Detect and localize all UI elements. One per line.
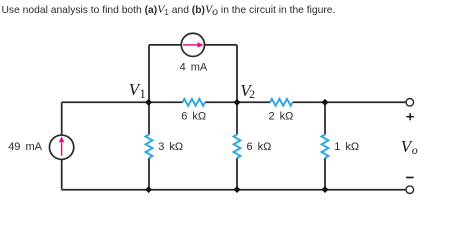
svg-text:1 kΩ: 1 kΩ (334, 141, 359, 153)
wire: left vertical branch (top half, above 49mA source) (61, 102, 63, 135)
svg-text:6 kΩ: 6 kΩ (181, 111, 206, 123)
minus sign (406, 177, 414, 179)
wire: top rail segment between 6k and 2k resistors (205, 101, 270, 103)
open terminal (bottom right) (406, 186, 414, 194)
svg-text:4 mA: 4 mA (180, 62, 208, 74)
resistor 6k horizontal (between V1 and V2) (183, 99, 206, 106)
resistor 1k vertical (right branch) (322, 135, 329, 158)
problem statement text (2, 2, 336, 17)
svg-text:3 kΩ: 3 kΩ (158, 141, 183, 153)
svg-text:49 mA: 49 mA (8, 141, 42, 153)
current source I2 49 mA (circle) (49, 135, 73, 159)
resistor 3k vertical (below V1) (146, 135, 153, 158)
svg-text:6 kΩ: 6 kΩ (247, 141, 272, 153)
svg-text:V2: V2 (240, 81, 255, 101)
svg-text:V1: V1 (129, 80, 146, 101)
open terminal (top right) (406, 99, 414, 107)
svg-text:Vo: Vo (401, 137, 418, 157)
resistor 6k vertical (below V2) (234, 135, 241, 158)
plus sign (406, 113, 414, 120)
wire: top branch right vertical (down to V2) (236, 45, 238, 102)
current source I1 arrow (183, 42, 203, 47)
wire: right branch below 1k resistor (324, 158, 326, 190)
wire: bottom rail (62, 189, 406, 191)
wire: V1 branch below 3k resistor (148, 158, 150, 190)
wire: top rail segment from 2k resistor to open terminal (293, 101, 406, 103)
wire: top branch horizontal left of 4mA source (149, 44, 181, 46)
junction dot bottom of V1 branch (146, 187, 152, 193)
wire: V2 branch below 6k resistor (236, 158, 238, 190)
junction dot top of 1k branch (322, 99, 328, 105)
node V1 junction dot (top) (146, 99, 152, 105)
wire: right branch above 1k resistor (324, 102, 326, 134)
junction dot bottom of 1k branch (322, 187, 328, 193)
wire: top branch horizontal right of 4mA source (205, 44, 237, 46)
wire: top branch left vertical (V1 up) (148, 45, 150, 102)
wire: left vertical branch (bottom half, below 49mA source) (61, 159, 63, 189)
node V2 junction dot (top) (234, 99, 240, 105)
resistor 2k horizontal (right of V2) (270, 99, 293, 106)
junction dot bottom of V2 branch (234, 187, 240, 193)
current source I1 4 mA (circle) (181, 33, 204, 56)
current source I2 arrow (59, 136, 64, 155)
svg-text:2 kΩ: 2 kΩ (269, 111, 294, 123)
wire: V2 branch above 6k resistor (236, 102, 238, 134)
wire: top rail segment from left corner to 6k resistor (62, 101, 183, 103)
wire: V1 branch above 3k resistor (148, 102, 150, 134)
